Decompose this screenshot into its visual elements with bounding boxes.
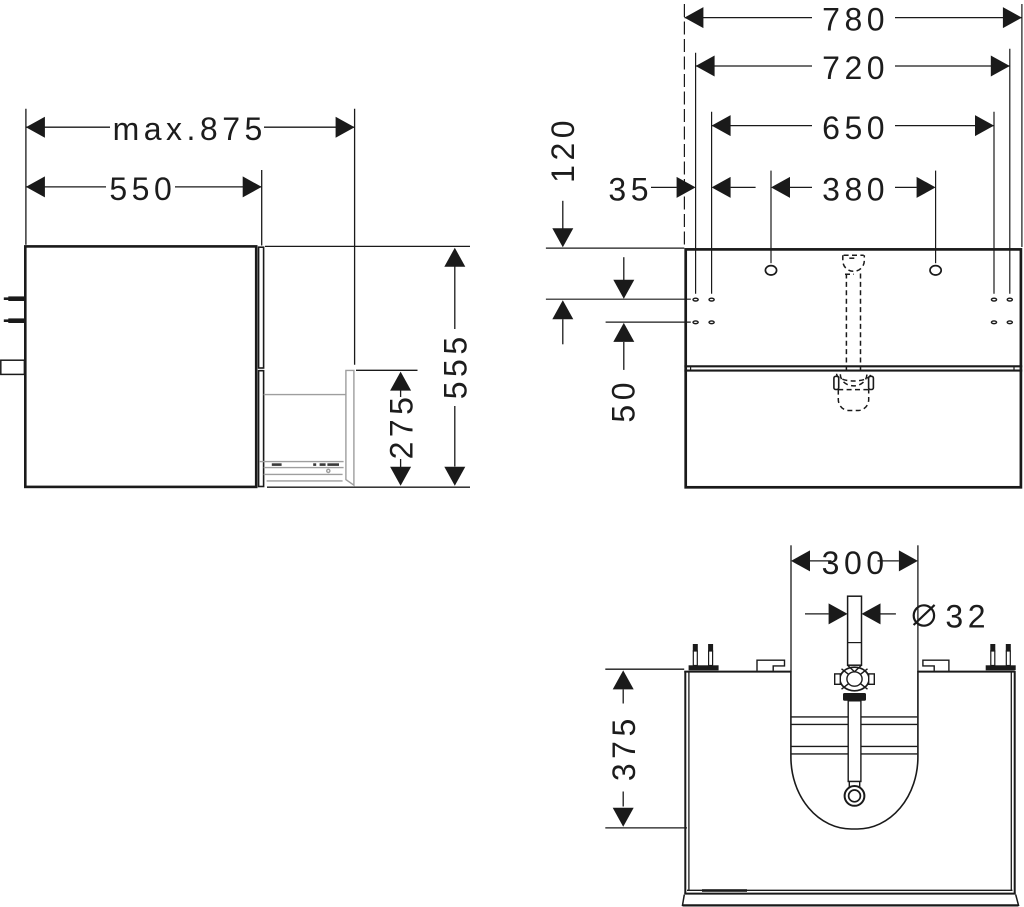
svg-text:max.875: max.875 xyxy=(113,111,267,147)
svg-text:555: 555 xyxy=(438,332,474,399)
svg-text:720: 720 xyxy=(822,50,889,86)
svg-text:550: 550 xyxy=(109,171,176,207)
svg-text:380: 380 xyxy=(822,172,889,208)
svg-text:375: 375 xyxy=(606,714,642,781)
svg-text:780: 780 xyxy=(822,2,889,38)
svg-text:120: 120 xyxy=(545,116,581,183)
svg-text:650: 650 xyxy=(822,110,889,146)
svg-text:50: 50 xyxy=(605,378,641,423)
svg-text:300: 300 xyxy=(822,545,889,581)
svg-text:275: 275 xyxy=(384,393,420,460)
svg-text:35: 35 xyxy=(608,172,653,208)
svg-text:32: 32 xyxy=(945,599,990,635)
